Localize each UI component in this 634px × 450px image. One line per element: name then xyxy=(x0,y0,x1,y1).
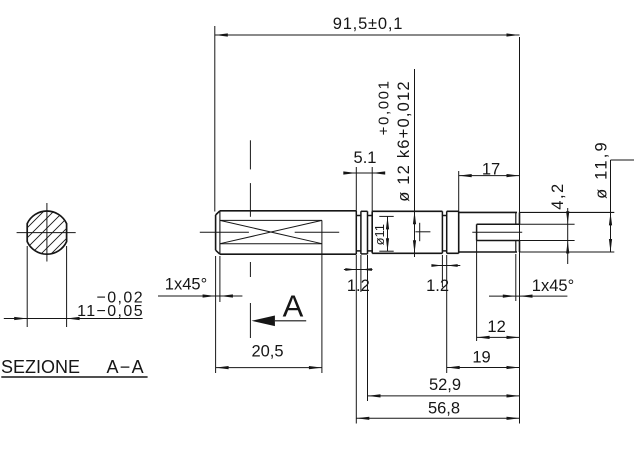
dimension 56,8 xyxy=(356,417,519,420)
dimension 1.2 left xyxy=(344,255,373,424)
shaft middle section outline xyxy=(372,211,459,253)
dimension 1.2 right xyxy=(431,255,460,373)
collar ring xyxy=(361,211,372,254)
svg-text:11−0,05: 11−0,05 xyxy=(77,303,144,320)
shaft left knurled section outline xyxy=(216,211,357,254)
svg-text:20,5: 20,5 xyxy=(251,343,283,361)
dimension 11 -0,02/-0,05 xyxy=(4,246,143,327)
svg-text:5.1: 5.1 xyxy=(354,149,377,167)
svg-text:52,9: 52,9 xyxy=(429,376,461,394)
groove 2 (right) xyxy=(442,211,446,253)
dimension 1x45 left xyxy=(158,256,242,373)
centerline horizontal xyxy=(200,223,522,241)
dimension dia 12 k6 xyxy=(413,69,416,257)
dimension 5.1 xyxy=(343,167,385,211)
svg-text:A−A: A−A xyxy=(107,357,145,377)
section cut line A-A xyxy=(249,140,251,338)
svg-text:1.2: 1.2 xyxy=(347,277,370,295)
svg-text:19: 19 xyxy=(472,349,490,367)
dimension 1x45 right xyxy=(489,254,567,301)
dimension 4,2 keyway xyxy=(520,208,575,264)
dimension 91,5 xyxy=(215,26,520,424)
svg-text:91,5±0,1: 91,5±0,1 xyxy=(333,15,404,33)
svg-text:1x45°: 1x45° xyxy=(165,276,207,294)
dimension 17 xyxy=(459,171,520,211)
dimension 20,5 xyxy=(216,220,322,373)
circle centerlines xyxy=(17,203,76,262)
svg-text:1x45°: 1x45° xyxy=(532,277,574,295)
svg-text:12: 12 xyxy=(487,318,505,336)
svg-text:56,8: 56,8 xyxy=(428,400,460,418)
dimension dia 11,9 xyxy=(520,160,634,252)
section arrow A xyxy=(252,316,307,327)
svg-text:ø11: ø11 xyxy=(372,224,387,245)
svg-text:ø 11,9: ø 11,9 xyxy=(593,140,611,199)
knurl cross box xyxy=(220,220,322,243)
svg-text:+0,001: +0,001 xyxy=(376,79,393,135)
svg-text:A: A xyxy=(283,289,304,324)
section view circle A-A xyxy=(4,197,108,301)
keyway slot xyxy=(477,224,520,240)
shoulder xyxy=(458,211,460,253)
dimension dia 11 (groove) xyxy=(379,216,393,251)
svg-text:4,2: 4,2 xyxy=(549,182,567,209)
svg-text:ø 12 k6+0,012: ø 12 k6+0,012 xyxy=(395,80,413,202)
groove 1 (left) xyxy=(356,211,361,254)
svg-text:17: 17 xyxy=(482,160,500,178)
dimension 12 (keyway length) xyxy=(477,241,520,342)
svg-text:SEZIONE: SEZIONE xyxy=(1,357,80,377)
title SEZIONE A-A xyxy=(1,357,145,377)
dimension 52,9 xyxy=(368,255,520,401)
dimension 19 xyxy=(447,366,520,369)
shaft right end section outline xyxy=(459,212,520,252)
svg-text:1.2: 1.2 xyxy=(426,277,449,295)
